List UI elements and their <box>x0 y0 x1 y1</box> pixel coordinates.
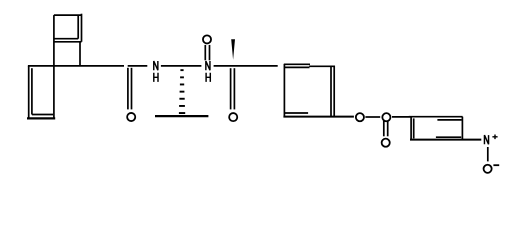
atom O3 carbonate carbonyl oxygen <box>382 139 390 147</box>
carbonyl C1=O double bond line 2 <box>131 68 133 110</box>
atom label H of N1 <box>154 73 158 82</box>
N2 N=O double bond line 1 <box>204 45 206 60</box>
ring E left inner double-bond line <box>413 118 415 138</box>
atom label N+ of nitro <box>484 135 488 144</box>
charge label minus <box>493 164 499 166</box>
ring E top inner double-bond line <box>437 119 461 121</box>
ring E right edge <box>461 117 463 140</box>
ring E bottom edge and bond to N+ <box>410 139 481 141</box>
ring D bottom edge and bond to O ester <box>283 116 354 118</box>
ring A right outer double-bond line <box>81 14 83 42</box>
atom O1 ester oxygen <box>356 113 364 121</box>
ring A right inner edge <box>77 15 79 39</box>
charge label plus <box>492 134 497 139</box>
N2 N=O double bond line 2 <box>209 45 211 60</box>
ring C bottom inner double-bond line <box>32 114 53 116</box>
wire bond O1 to O2 <box>365 116 380 118</box>
stereo solid wedge bond <box>231 39 235 60</box>
wire main chain segment 1 <box>28 65 124 67</box>
ring C left inner double-bond line <box>31 68 33 114</box>
ring A bottom outer double-bond line <box>54 41 82 43</box>
ring A bottom inner edge <box>54 38 78 40</box>
atom label H of N2 <box>206 73 210 82</box>
wire main chain segment 3 <box>161 65 202 67</box>
ring D right main edge <box>330 66 332 116</box>
wire main chain segment 2 <box>128 65 148 67</box>
ring D top double-bond line <box>284 63 310 65</box>
carbonyl C2=O double bond line 1 <box>230 68 232 109</box>
atom O double-bonded above N2 <box>203 35 211 43</box>
wire bond O2 to ring E <box>392 116 411 118</box>
atom label N2 <box>206 61 210 70</box>
atom O of C1=O drawn as ring glyph <box>127 113 135 121</box>
wire bond N+ to O- <box>487 147 489 161</box>
carbonyl C2=O double bond line 2 <box>233 68 235 109</box>
carbonate C=O double bond line 1 <box>383 121 385 137</box>
wire shared vertical edge rings A-C <box>53 15 55 118</box>
stereo hash wedge bond <box>179 69 185 114</box>
atom O- nitro oxygen <box>484 165 492 173</box>
carbonyl C1=O double bond line 1 <box>127 68 129 110</box>
ring D top-right edge <box>309 65 335 67</box>
ring D right outer double-bond line <box>333 66 335 117</box>
ring C bottom outer edge <box>27 117 55 119</box>
wire leg from ring A to chain <box>79 42 81 66</box>
ring A top edge <box>54 14 82 16</box>
ring D left edge <box>283 64 285 117</box>
atom O2 carbonate oxygen <box>382 113 390 121</box>
ring C left outer edge <box>28 66 30 119</box>
wire main chain segment 4 <box>214 65 278 67</box>
ring D bottom inner double-bond line <box>285 112 309 114</box>
atom O of C2=O <box>229 113 237 121</box>
ring D top-left edge <box>284 66 310 68</box>
carbonate C=O double bond line 2 <box>387 121 389 137</box>
wire isopropyl side-chain bar <box>155 115 208 117</box>
ring E bottom inner double-bond line <box>436 136 461 138</box>
atom label N1 <box>154 61 158 70</box>
ring E left outer edge <box>410 117 412 140</box>
ring E top edge <box>409 116 463 118</box>
